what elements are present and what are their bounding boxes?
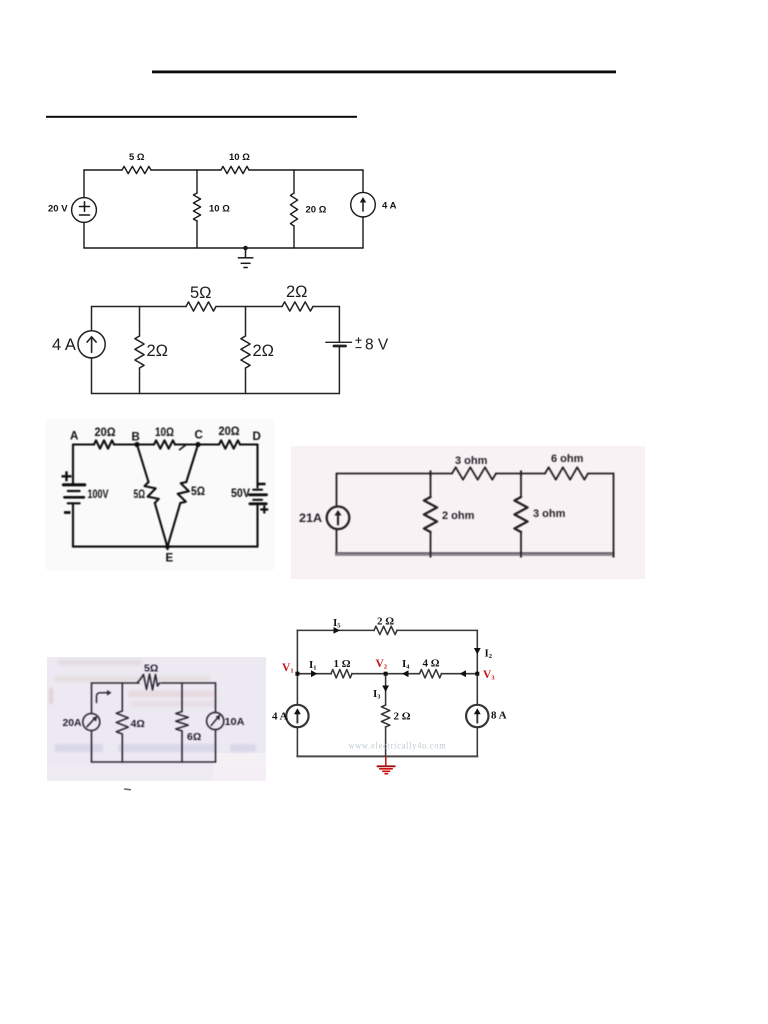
svg-text:10A: 10A: [225, 716, 245, 728]
wire: C2 right vertical upper: [338, 307, 340, 343]
voltage source 20V circle: [72, 198, 97, 223]
current source 8A circle C6: [466, 705, 488, 727]
battery 50V plus sign: [260, 506, 268, 514]
svg-text:I2: I2: [485, 648, 493, 661]
resistor 5ohm series: [186, 302, 216, 311]
wire: C5 bottom wire: [92, 761, 216, 763]
ground symbol C6 (red): [377, 757, 396, 774]
wire: C5 shunt 6ohm upper lead: [181, 683, 183, 712]
node dot C: [195, 442, 200, 447]
svg-text:A: A: [70, 431, 78, 443]
current source 4A circle: [351, 192, 376, 217]
voltage source minus sign: [80, 214, 90, 216]
I2 arrow head on right vertical: [474, 648, 481, 655]
resistor 6ohm shunt: [176, 712, 188, 732]
node tick top 2 C4: [520, 471, 522, 477]
wire: C1 left vertical lower: [83, 222, 85, 248]
lighter bottom-right of scan block: [213, 753, 266, 781]
svg-text:www.electrically4u.com: www.electrically4u.com: [349, 742, 447, 752]
current source 4A arrow head: [360, 197, 366, 203]
faint scan tint behind circuit 3: [46, 418, 274, 570]
node tick bottom 1 C4: [430, 552, 432, 558]
wire: C4 left vertical lower: [336, 529, 338, 555]
wire: C5 shunt 4ohm upper lead: [121, 683, 123, 711]
svg-text:2Ω: 2Ω: [147, 342, 169, 360]
wire: C3 diagonal C upper: [186, 445, 198, 483]
wire: C4 top middle segment: [496, 473, 545, 475]
wire: C5 right vertical lower: [215, 730, 217, 762]
wire: C6 left vertical upper: [296, 630, 298, 673]
wire: C6 top wire left: [297, 629, 374, 631]
battery 8V short plate: [334, 345, 346, 348]
wire: C1 shunt 20ohm lower lead: [293, 226, 295, 248]
current source 10A arrow shaft: [211, 717, 218, 726]
wire: C5 right vertical upper: [215, 683, 217, 712]
svg-text:I5: I5: [333, 617, 341, 630]
svg-text:21A: 21A: [299, 511, 322, 525]
svg-text:6 ohm: 6 ohm: [551, 453, 584, 465]
resistor 2ohm shunt C4: [424, 497, 437, 532]
wire: C6 left vertical mid: [296, 674, 298, 705]
resistor 2ohm shunt1: [135, 336, 144, 368]
wire: C6 mid wire V1 to 1ohm: [297, 673, 331, 675]
svg-text:5Ω: 5Ω: [134, 489, 146, 501]
current source 21A arrow head: [334, 510, 341, 516]
wire: C1 left vertical: [83, 170, 85, 198]
wire: C2 left vertical lower: [91, 358, 93, 394]
hook arrow C5: [97, 693, 109, 703]
current source 4A circle C6: [286, 705, 308, 727]
svg-text:2 Ω: 2 Ω: [377, 616, 394, 628]
svg-text:100V: 100V: [88, 489, 109, 501]
4A arrow head C6: [294, 708, 301, 714]
svg-text:V3: V3: [483, 669, 495, 682]
resistor 3ohm series: [452, 467, 496, 479]
wire: C3 top wire to B: [114, 443, 154, 445]
current source 4A arrow head C2 (open chevron): [87, 337, 97, 343]
svg-text:50V: 50V: [231, 488, 250, 500]
node tick right end C4: [613, 552, 615, 558]
wire: C4 shunt 3ohm upper lead: [520, 474, 522, 498]
svg-text:8 A: 8 A: [491, 710, 507, 722]
wire: C6 top wire right: [397, 629, 477, 631]
current source 4A arrow shaft C2: [91, 337, 93, 352]
title rule 2: [46, 116, 357, 118]
resistor 3ohm shunt C4: [515, 497, 528, 532]
title rule 1: [152, 71, 616, 74]
ground symbol C1: [238, 248, 254, 268]
svg-text:4 A: 4 A: [52, 336, 76, 354]
wire: C4 shunt 3ohm lower lead: [520, 532, 522, 555]
wire: C3 diagonal B lower: [155, 503, 168, 549]
wire: C2 shunt1 upper lead: [139, 307, 141, 337]
wire: C2 shunt2 upper lead: [245, 307, 247, 337]
svg-text:2 ohm: 2 ohm: [442, 510, 475, 522]
wire: C6 mid wire V2 to 4ohm: [386, 673, 420, 675]
svg-text:20 V: 20 V: [48, 204, 68, 215]
resistor 10ohm B-C: [154, 440, 175, 448]
svg-text:3 ohm: 3 ohm: [533, 508, 566, 520]
node dot V1: [295, 672, 299, 676]
small tick artifact near C: [180, 445, 187, 450]
svg-text:10 Ω: 10 Ω: [209, 204, 230, 215]
wire: C4 shunt 2ohm upper lead: [430, 474, 432, 498]
resistor 5ohm on B-E diagonal: [145, 482, 159, 503]
svg-text:10Ω: 10Ω: [155, 427, 174, 439]
node dot V2: [384, 672, 388, 676]
voltage source plus sign: [80, 202, 90, 211]
resistor 4ohm shunt: [116, 711, 128, 734]
battery 100V minus sign: [64, 511, 71, 514]
battery 50V minus sign: [259, 483, 266, 486]
svg-text:2Ω: 2Ω: [286, 283, 308, 301]
wire: C5 top right segment: [161, 682, 216, 684]
I4 arrow head on mid wire: [402, 670, 409, 677]
wire: C5 left vertical lower: [91, 731, 93, 763]
resistor 2ohm top C6: [374, 626, 397, 634]
scan background block C5: [47, 657, 266, 781]
I3 arrow head on middle branch: [382, 686, 389, 693]
wire: C4 right vertical: [613, 474, 615, 556]
svg-text:1 Ω: 1 Ω: [334, 658, 351, 670]
resistor 2ohm series: [282, 302, 313, 311]
svg-text:5Ω: 5Ω: [191, 486, 205, 498]
svg-text:20A: 20A: [63, 717, 82, 729]
10A arrow head: [216, 714, 221, 720]
svg-text:8 V: 8 V: [365, 337, 389, 354]
wire: C3 left vertical lower: [72, 505, 74, 547]
resistor 6ohm series: [545, 467, 588, 479]
svg-text:6Ω: 6Ω: [187, 731, 201, 743]
wire: C1 right vertical upper: [362, 170, 364, 192]
resistor 2ohm shunt2: [241, 336, 250, 368]
resistor R 10ohm (shunt): [193, 193, 200, 221]
wire: C2 top middle segment: [216, 306, 282, 308]
wire: C6 right vertical mid: [476, 674, 478, 705]
wire: C2 shunt1 lower lead: [139, 368, 141, 394]
svg-text:10 Ω: 10 Ω: [229, 152, 250, 163]
node dot B: [134, 442, 139, 447]
battery 100V plates: [64, 483, 85, 486]
svg-text:20 Ω: 20 Ω: [306, 205, 327, 216]
resistor R 20ohm (shunt): [290, 193, 297, 226]
20A arrow head: [92, 716, 97, 722]
current source 4A arrow shaft: [362, 201, 364, 212]
wire: C4 shunt 2ohm lower lead: [430, 532, 432, 555]
current source 21A arrow shaft: [337, 514, 339, 525]
wire: C1 top left segment: [84, 169, 122, 171]
svg-text:4 A: 4 A: [272, 711, 288, 723]
node dot E: [165, 544, 170, 549]
wire: C1 shunt 10ohm upper lead: [196, 170, 198, 193]
svg-text:4Ω: 4Ω: [131, 718, 145, 730]
current source 21A circle: [327, 507, 350, 530]
battery 100V plus sign: [62, 471, 72, 481]
svg-text:4 A: 4 A: [382, 201, 397, 212]
current source 20A circle: [83, 714, 100, 731]
resistor R 10ohm (series): [221, 166, 249, 173]
current source 20A arrow shaft: [87, 718, 95, 726]
wire: C6 right vertical lower: [476, 727, 478, 756]
node dot at ground junction: [243, 246, 248, 251]
wire: C3 right vertical lower: [256, 505, 258, 547]
wire: C6 middle branch lower: [385, 727, 387, 756]
wire: C1 shunt 10ohm lower lead: [196, 221, 198, 248]
node dot V3: [475, 672, 479, 676]
resistor 5ohm on C-E diagonal: [178, 482, 189, 503]
svg-text:2Ω: 2Ω: [253, 342, 275, 360]
battery 50V plates: [253, 489, 262, 491]
svg-text:3 ohm: 3 ohm: [455, 455, 488, 467]
svg-text:V1: V1: [282, 662, 294, 675]
resistor R 5ohm (series): [122, 166, 151, 173]
wire: C3 left vertical upper: [72, 445, 74, 484]
wire: C6 left vertical lower: [296, 727, 298, 756]
node tick bottom 2 C4: [520, 552, 522, 558]
wire: C3 top wire to D: [240, 443, 258, 445]
wire: C6 mid wire 1ohm to V2: [352, 673, 386, 675]
wire: C1 shunt 20ohm upper lead: [293, 170, 295, 193]
svg-text:B: B: [132, 432, 140, 444]
wire: C5 shunt 6ohm lower lead: [181, 731, 183, 762]
I1 arrow head on mid wire: [311, 670, 318, 677]
wire: C3 diagonal B upper: [137, 445, 149, 483]
resistor 20ohm A-B: [94, 440, 114, 448]
battery plus-minus mark: [356, 337, 362, 347]
wire: C1 top right segment: [249, 169, 363, 171]
wire: C1 top middle segment: [151, 169, 221, 171]
8A arrow head C6: [474, 708, 481, 714]
wire: C3 right vertical upper: [256, 445, 258, 488]
wire: C3 top wire A segment: [73, 443, 94, 445]
svg-text:I4: I4: [402, 658, 410, 671]
resistor 20ohm C-D: [219, 440, 240, 448]
svg-text:D: D: [253, 431, 261, 443]
scan background block C4: [291, 446, 645, 579]
hook arrow head C5: [107, 690, 112, 696]
battery 8V long plate: [326, 341, 352, 343]
wire: C1 bottom wire: [84, 247, 363, 249]
svg-text:I1: I1: [309, 659, 317, 672]
wire: C6 bottom wire: [297, 755, 477, 757]
wire: C6 middle branch upper: [385, 674, 387, 705]
node tick top 1 C4: [430, 471, 432, 477]
wire: C4 top left segment: [337, 473, 453, 475]
wire: C4 left vertical upper: [336, 474, 338, 507]
wire: C6 mid wire 4ohm to V3: [442, 673, 478, 675]
wire: C2 top right segment: [313, 306, 339, 308]
small dash artifact below C5: [124, 788, 131, 791]
resistor 4ohm C6: [420, 670, 442, 678]
wire: C5 top left segment: [92, 682, 140, 684]
wire: C3 top wire to C: [175, 443, 219, 445]
I5 arrow head on top wire: [334, 627, 341, 634]
resistor 2ohm middle C6: [381, 705, 389, 727]
wire: C3 bottom wire: [73, 546, 258, 548]
ghost bleed-through rows C5: [49, 660, 256, 752]
current source 10A circle: [207, 712, 224, 729]
resistor 5ohm top C5: [137, 674, 160, 690]
svg-text:C: C: [195, 430, 203, 442]
wire: C2 top left segment: [92, 306, 187, 308]
svg-text:2 Ω: 2 Ω: [394, 711, 411, 723]
wire: C2 bottom wire: [92, 393, 340, 395]
wire: C3 diagonal C lower: [168, 503, 181, 547]
wire: C5 left vertical upper: [91, 683, 93, 713]
svg-text:5 Ω: 5 Ω: [129, 152, 145, 163]
wire: C6 right vertical upper: [476, 630, 478, 673]
svg-text:V2: V2: [376, 658, 388, 671]
resistor 1ohm C6: [331, 670, 352, 678]
wire: C5 shunt 4ohm lower lead: [121, 734, 123, 762]
wire: C2 left vertical upper: [91, 307, 93, 331]
svg-text:5Ω: 5Ω: [190, 284, 212, 302]
wire: C4 top right segment: [588, 473, 614, 475]
current source 8A arrow shaft C6: [476, 712, 478, 723]
arrow head into V3 on mid wire: [460, 670, 467, 677]
svg-text:20Ω: 20Ω: [219, 426, 240, 438]
wire: C1 right vertical lower: [362, 217, 364, 248]
svg-text:5Ω: 5Ω: [144, 663, 158, 675]
current source 4A arrow shaft C6: [296, 712, 298, 723]
C4 thick gray bottom wire: [335, 553, 615, 556]
wire: C2 right vertical lower: [338, 346, 340, 394]
svg-text:E: E: [166, 553, 174, 565]
svg-text:20Ω: 20Ω: [95, 427, 116, 439]
svg-text:I3: I3: [373, 688, 381, 701]
svg-text:4 Ω: 4 Ω: [423, 658, 440, 670]
current source 4A circle C2: [78, 331, 105, 358]
wire: C2 shunt2 lower lead: [245, 368, 247, 394]
